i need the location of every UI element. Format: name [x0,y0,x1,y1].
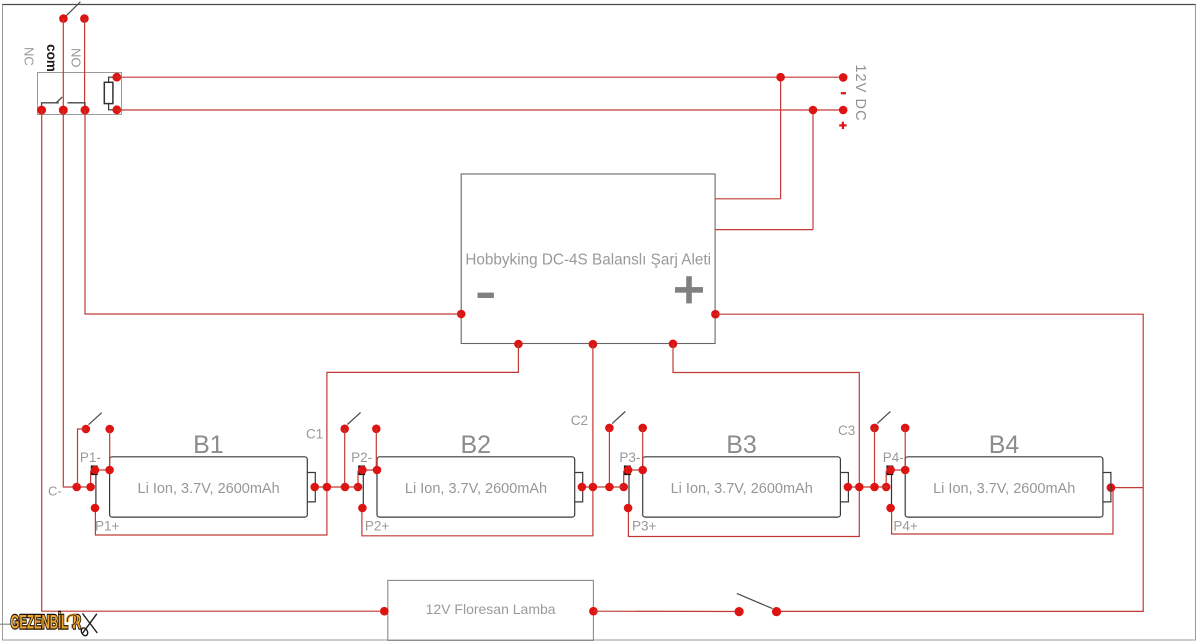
svg-text:NC: NC [22,47,37,66]
pin P1+ dot [91,504,100,513]
wire relay NC to lamp [42,110,385,611]
svg-text:C1: C1 [306,427,323,442]
pin P4- block dot [886,466,895,475]
wire balance row B1-B2 [315,486,358,488]
label minus sign 12V DC [841,92,846,94]
relay coil rectangle [104,82,113,103]
relay contact arm NC side [42,103,59,110]
wire 12V DC negative rail [117,76,843,78]
wire C3 balance lead [628,344,859,537]
battery B2 negative lead black [362,475,364,506]
wire 12V DC positive rail [117,109,843,111]
battery B3 box [643,457,841,517]
pin P3- block dot [624,466,633,475]
svg-text:C2: C2 [571,413,588,428]
wire switch SB4 right contact to P4- terminal [904,428,906,470]
pin P2- box edge dot [373,466,382,475]
node B3 nub dot [844,483,853,492]
switch SB3 left contact dot [605,424,614,433]
svg-text:B2: B2 [461,431,492,459]
node C3 row dot [855,483,864,492]
node C1 row dot [323,483,332,492]
svg-text:P2-: P2- [351,450,372,465]
switch S2 blade [737,593,773,608]
battery B1 negative lead black [95,475,97,506]
relay coil terminal dot lower [112,105,121,114]
pin NO junction dot [81,106,90,115]
switch SB1 left contact dot [82,425,91,434]
wire relay com to C- node [63,110,90,487]
wire C1 balance lead [95,344,518,535]
battery B2 positive nub [575,473,583,502]
pin P4- box edge dot [901,466,910,475]
switch SB2 right contact dot [372,425,381,434]
relay coil top lead [109,77,117,82]
logo stylized question hook [67,615,76,629]
svg-text:B3: B3 [726,431,757,459]
pin lamp right dot [589,607,598,616]
logo GEZENBILIR watermark [11,611,82,633]
pin P1- block dot [91,466,100,475]
node SB4 row dot [870,483,879,492]
svg-text:B1: B1 [193,431,224,459]
wire balance node up to terminal block B3 [623,471,625,487]
node SB3 row dot [605,483,614,492]
wire switch SB2 right contact to P2- terminal [375,429,377,470]
wire P2- terminal link [362,469,377,471]
pin NC junction dot [37,106,46,115]
battery B3 negative terminal block [624,466,631,476]
relay coil bottom lead [109,104,117,110]
battery B4 negative lead black [891,475,893,506]
logo baseline gray stub line [0,623,11,625]
svg-text:B4: B4 [989,431,1020,459]
node C2 row dot [589,483,598,492]
node SB2 row dot [341,483,350,492]
relay contact blade tick [56,97,62,103]
wire balance node up to terminal block B4 [885,471,887,487]
switch SB2 blade [347,412,360,424]
terminal 12V DC minus dot [839,73,848,82]
wire P4- terminal link [891,469,906,471]
wire P1- terminal link [95,469,110,471]
pin P4+ dot [886,504,895,513]
svg-text:P2+: P2+ [365,519,390,534]
wire B4 plus return lead [892,488,1113,534]
node B2 nub dot [578,483,587,492]
svg-text:NO: NO [69,48,84,67]
wire switch SB1 right contact to P1- terminal [109,429,111,470]
svg-text:Li Ion, 3.7V, 2600mAh: Li Ion, 3.7V, 2600mAh [138,481,280,497]
pin charger C2 dot [589,340,598,349]
wire charger positive feed vertical [812,110,814,230]
wire lamp to switch S2 [593,610,739,612]
wire charger negative feed horizontal [715,198,781,200]
charger U1 box Hobbyking DC-4S [461,174,715,344]
pin charger DC- dot [457,310,466,319]
switch SB3 blade [612,412,625,424]
relay K1 box [38,73,122,115]
svg-text:12V DC: 12V DC [852,64,868,121]
pin charger C1 dot [514,340,523,349]
battery B4 negative terminal block [886,466,893,476]
switch S1 contact dots [59,14,68,23]
switch S2 left contact dot [735,607,744,616]
logo scissors icon [80,614,97,637]
wire com vertical from S1 to relay [62,19,64,111]
switch SB1 right contact dot [105,425,114,434]
wire charger positive feed horizontal [715,229,813,231]
svg-text:P3-: P3- [619,450,640,465]
wire balance row B3-B4 [848,486,888,488]
svg-text:Li Ion, 3.7V, 2600mAh: Li Ion, 3.7V, 2600mAh [405,481,547,497]
battery B3 negative lead black [628,475,630,506]
pin lamp left dot [380,607,389,616]
battery B4 positive nub [1103,473,1111,502]
lamp L1 box 12V Floresan Lamba [388,580,594,640]
svg-text:C-: C- [48,484,62,499]
node C- junction dot [72,483,81,492]
svg-text:Li Ion, 3.7V, 2600mAh: Li Ion, 3.7V, 2600mAh [933,481,1075,497]
wire P3- terminal link [628,469,643,471]
wire B4 plus to right bus [1111,487,1143,489]
svg-text:P1-: P1- [80,450,101,465]
node balance row dot B4 [882,483,891,492]
pin P1- box edge dot [105,466,114,475]
node B4 nub junction dot [1107,483,1116,492]
svg-text:P1+: P1+ [95,519,120,534]
wire switch SB2 left contact down to balance node [344,429,346,487]
switch S2 right contact dot [772,607,781,616]
charger plus terminal symbol [675,287,703,293]
node balance row dot B1 [86,483,95,492]
pin P3- box edge dot [638,466,647,475]
switch SB4 right contact dot [901,424,910,433]
border top dark line [3,4,1196,6]
wire relay NO to charger DC- [85,110,461,314]
label plus sign 12V DC [839,124,846,126]
svg-text:com: com [44,44,59,72]
switch SB1 blade [89,413,102,425]
wire charger DC+ to right bus [715,314,1143,611]
svg-text:GEZENBİL: GEZENBİL [11,611,69,633]
switch SB4 blade [877,412,890,424]
node balance row dot B3 [619,483,628,492]
switch S1 blade (relay trigger switch) [66,2,80,16]
charger minus terminal symbol [478,293,494,298]
svg-text:C3: C3 [838,423,855,438]
wire switch SB4 left contact down to balance node [874,428,876,487]
svg-text:Li Ion, 3.7V, 2600mAh: Li Ion, 3.7V, 2600mAh [671,481,813,497]
wire charger negative feed vertical [780,77,782,199]
pin charger C3 dot [669,340,678,349]
battery B1 box [110,457,308,517]
battery B2 negative terminal block [358,466,365,476]
wire C2 balance lead [362,344,593,536]
relay contact arm NO side [68,103,86,110]
pin P2- block dot [358,466,367,475]
battery B4 box [905,457,1103,517]
pin P2+ dot [358,504,367,513]
switch SB4 left contact dot [870,424,879,433]
battery B3 positive nub [840,473,848,502]
wire balance row B2-B3 [582,486,623,488]
switch SB2 left contact dot [340,425,349,434]
svg-text:P4+: P4+ [893,519,918,534]
node balance row dot B2 [354,483,363,492]
relay coil terminal dot upper [112,73,121,82]
switch SB3 right contact dot [638,424,647,433]
svg-text:P4-: P4- [883,450,904,465]
terminal 12V DC plus dot [839,106,848,115]
battery B1 positive nub [307,473,315,502]
wire switch SB1 left contact to C- node [78,429,86,487]
node negative rail junction dot [776,73,785,82]
svg-text:12V Floresan Lamba: 12V Floresan Lamba [426,601,556,617]
pin charger DC+ dot [711,310,720,319]
pin P3+ dot [624,504,633,513]
wire balance node up to terminal block B2 [357,471,359,487]
battery B1 negative terminal block [91,466,98,476]
wire NO vertical from S1 to relay [84,19,86,111]
wire switch SB3 right contact to P3- terminal [642,428,644,470]
node B1 nub dot [310,483,319,492]
wire switch SB3 left contact down to balance node [608,428,610,487]
svg-text:P3+: P3+ [632,519,657,534]
battery B2 box [377,457,575,517]
pin com junction dot [59,106,68,115]
node positive rail junction dot [809,106,818,115]
wire balance node up to terminal block B1 [90,471,92,487]
svg-text:Hobbyking DC-4S Balanslı Şarj: Hobbyking DC-4S Balanslı Şarj Aleti [465,252,711,269]
